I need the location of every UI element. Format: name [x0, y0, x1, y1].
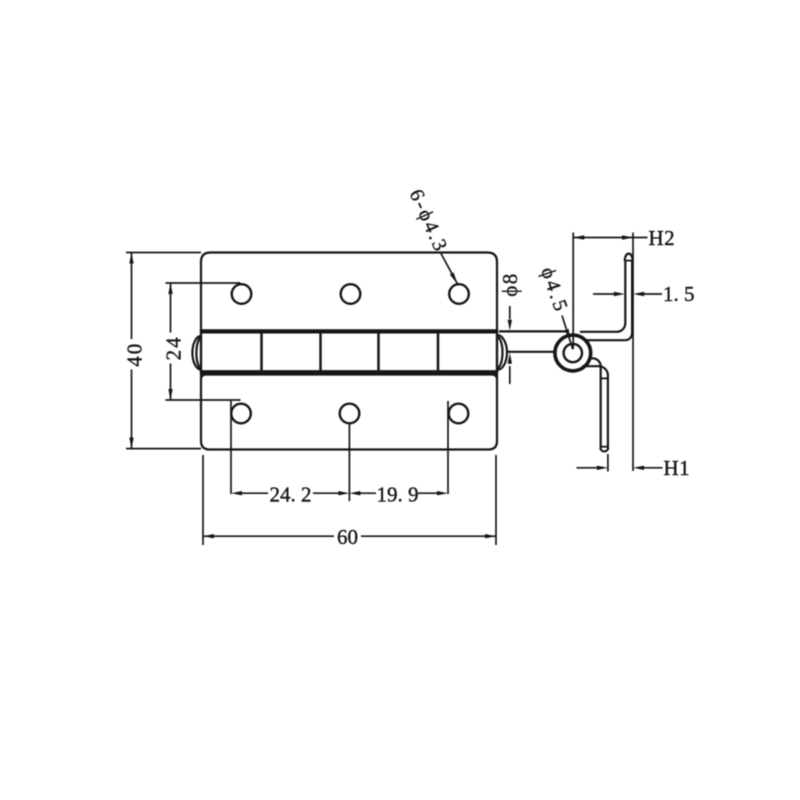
screw hole top-right — [449, 284, 469, 304]
svg-text:H2: H2 — [649, 226, 676, 250]
svg-text:ϕ4.5: ϕ4.5 — [536, 264, 572, 316]
H2 dimension line — [573, 237, 647, 239]
side view upper leaf — [580, 261, 632, 341]
side view lower leaf end cap — [600, 448, 608, 452]
dimension 1.5 (leaf thickness) — [593, 293, 662, 295]
top leaf plate (front view) — [201, 253, 497, 334]
svg-text:24: 24 — [161, 335, 185, 360]
side view lower leaf ticks — [601, 377, 608, 379]
H1 arrows shafts — [577, 467, 600, 469]
side view pin hole inner circle — [564, 344, 582, 362]
dimension 40: arrowheads — [129, 253, 133, 264]
dimension 24: extension lines — [166, 283, 241, 400]
dimension phi8 (barrel width) — [509, 306, 511, 384]
knuckle division line 3 — [377, 332, 380, 373]
dimension 24: dimension line — [170, 283, 172, 333]
H2 extension line from pin centre — [572, 233, 574, 350]
svg-text:1. 5: 1. 5 — [663, 282, 695, 306]
svg-text:ϕ8: ϕ8 — [498, 272, 522, 297]
plate edge through barrel left — [200, 330, 202, 373]
leader line phi4.5 — [562, 316, 573, 350]
plate edge through barrel right — [496, 330, 498, 373]
svg-text:19. 9: 19. 9 — [377, 483, 419, 507]
svg-text:40: 40 — [122, 342, 146, 367]
pin centre line between views — [506, 351, 554, 353]
dimension H2 — [573, 233, 647, 472]
svg-text:60: 60 — [337, 525, 358, 549]
bottom leaf plate (front view) — [201, 371, 497, 450]
pin end cap left — [192, 336, 201, 370]
screw hole top-left — [232, 284, 252, 304]
dimension H1 — [577, 454, 663, 472]
screw hole bottom-right — [449, 404, 469, 424]
leader line 6-phi4.3 — [441, 254, 458, 285]
svg-text:H1: H1 — [664, 456, 691, 480]
H1 extension line from lower leaf face — [607, 454, 609, 472]
svg-text:6-ϕ4.3: 6-ϕ4.3 — [405, 186, 452, 256]
side view lower leaf — [582, 358, 608, 448]
screw hole top-middle — [341, 284, 361, 304]
dimension 19.9 arrowheads — [349, 491, 360, 495]
dimension 60 line — [203, 535, 334, 537]
barrel top extension line to side view — [499, 330, 569, 332]
H2 right extension line (leaf outer face, down to H1) — [632, 233, 634, 472]
dimension 19.9 line segments — [358, 492, 376, 494]
dimension 24: arrowheads — [168, 283, 172, 294]
dimensions 24.2 and 19.9: extension lines — [231, 401, 448, 501]
screw hole bottom-left — [231, 404, 251, 424]
hinge barrel top edge (thick) — [200, 329, 498, 333]
dimension 24.2 arrowheads — [231, 491, 242, 495]
knuckle division line 1 — [260, 332, 263, 373]
dimension 40: dimension line — [131, 253, 133, 340]
side view knuckle outer circle — [555, 335, 591, 371]
svg-text:24. 2: 24. 2 — [270, 483, 312, 507]
hinge barrel bottom edge (thick) — [200, 370, 498, 374]
dimension 60: extension lines — [203, 455, 496, 545]
knuckle division line 4 — [437, 332, 440, 373]
pin end cap right — [497, 335, 507, 370]
screw hole bottom-middle — [340, 404, 360, 424]
side view upper leaf end cap — [625, 254, 633, 261]
side view upper leaf end tick — [625, 260, 633, 262]
knuckle division line 2 — [319, 332, 322, 373]
dimension 24.2 line segments — [241, 492, 268, 494]
dimension 40: extension lines — [126, 253, 201, 449]
